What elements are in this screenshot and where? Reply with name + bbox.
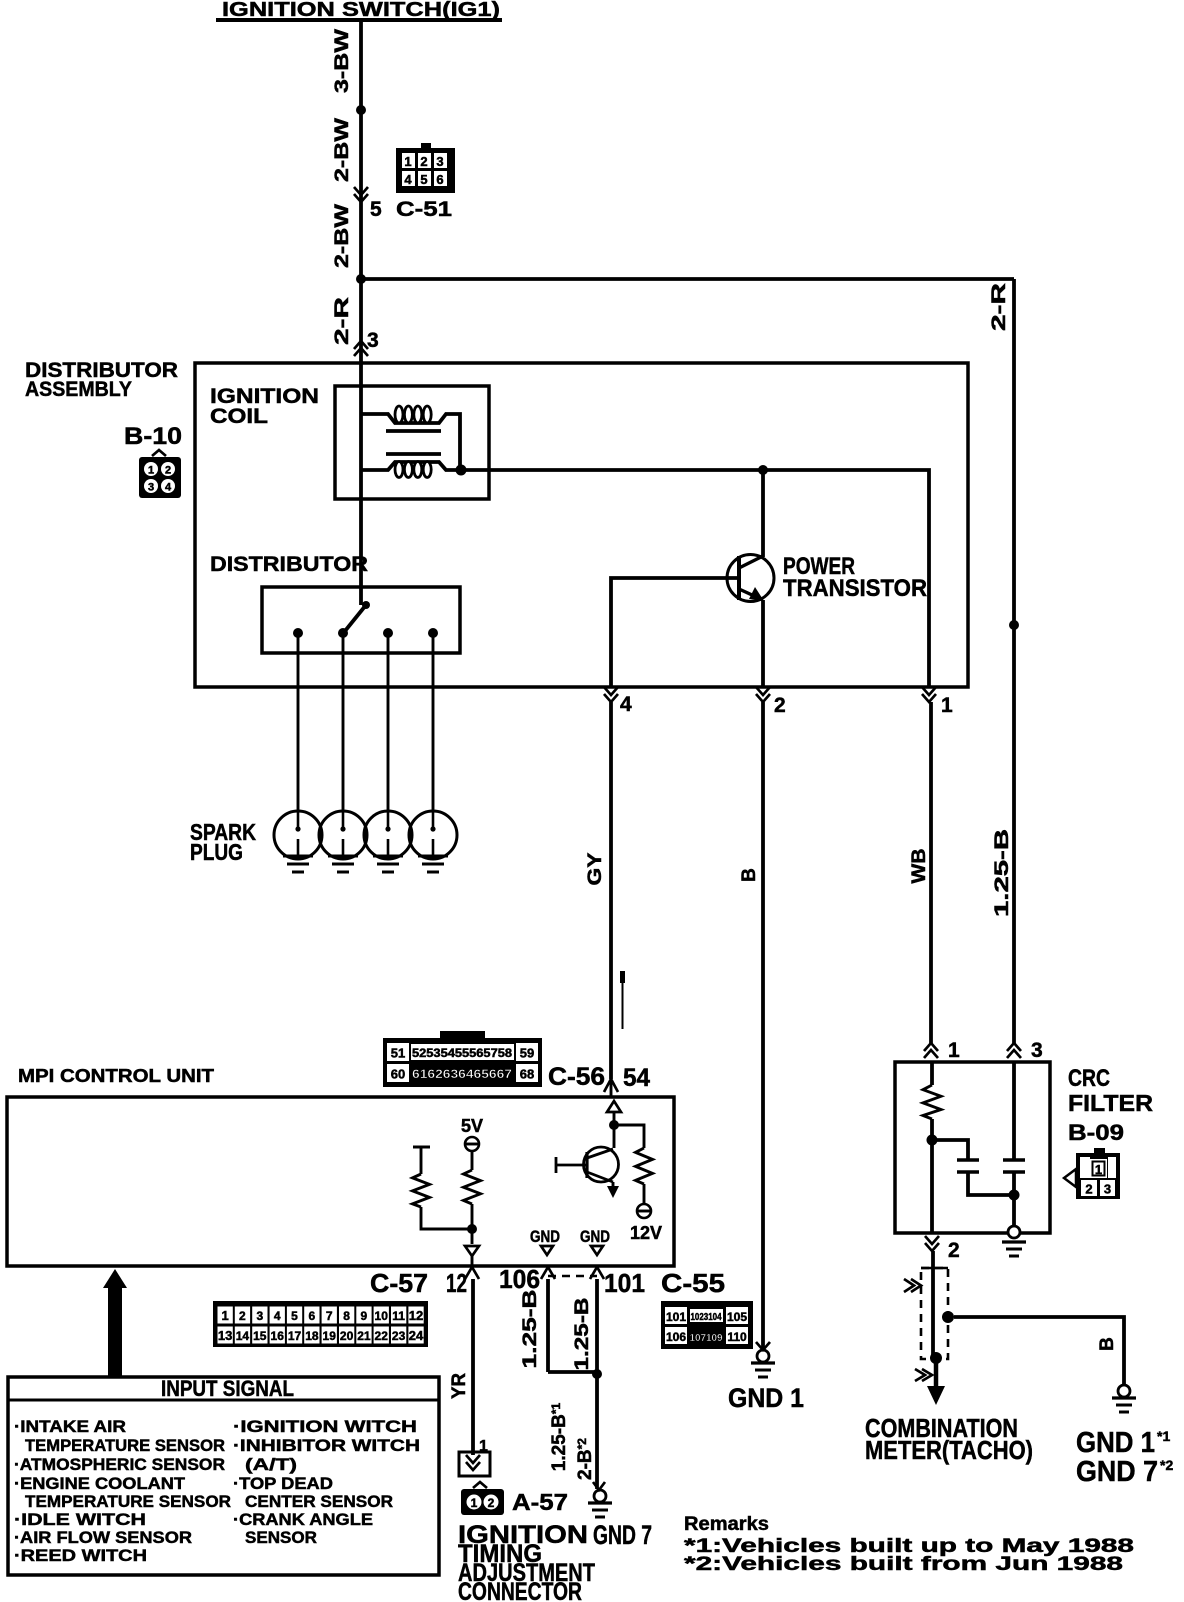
svg-text:GND 7: GND 7 xyxy=(1076,1456,1158,1488)
wire label 1.25-B (pin 101) xyxy=(572,1298,593,1371)
svg-text:*2:Vehicles built from Jun 198: *2:Vehicles built from Jun 1988 xyxy=(684,1554,1123,1575)
svg-text:METER(TACHO): METER(TACHO) xyxy=(865,1435,1033,1465)
junction node to 2-R branch xyxy=(356,274,366,284)
svg-text:3: 3 xyxy=(148,482,154,494)
node IGNITION SWITCH (IG1) title xyxy=(216,0,502,22)
connector icon C-55 xyxy=(661,1301,753,1349)
svg-text:6162636465667: 6162636465667 xyxy=(412,1067,512,1081)
chevron marker below dashed box xyxy=(915,1369,932,1381)
svg-text:GND 7: GND 7 xyxy=(593,1520,652,1550)
svg-text:COIL: COIL xyxy=(210,405,268,428)
wire transistor emitter down xyxy=(761,600,765,687)
svg-text:C-55: C-55 xyxy=(661,1268,725,1298)
input signal box xyxy=(8,1377,439,1575)
svg-text:SENSOR: SENSOR xyxy=(245,1528,317,1547)
junction node 106/101 xyxy=(592,1369,602,1379)
svg-text:12: 12 xyxy=(446,1268,467,1298)
wire C1 to ground node xyxy=(968,1172,1016,1195)
CRC filter box xyxy=(895,1062,1050,1233)
distributor contact 2 xyxy=(338,628,348,638)
connector arrow pin 2 (B) xyxy=(756,687,786,717)
wire pin 101 down xyxy=(595,1279,599,1489)
svg-text:MPI CONTROL UNIT: MPI CONTROL UNIT xyxy=(18,1066,214,1086)
wire GY down to MPI pin 54 xyxy=(609,702,613,1079)
svg-text:10: 10 xyxy=(375,1309,389,1323)
svg-text:17: 17 xyxy=(288,1329,302,1343)
resistor R3 in MPI xyxy=(636,1148,653,1184)
junction node tacho branch xyxy=(942,1311,954,1323)
svg-text:*1: *1 xyxy=(1157,1428,1170,1444)
wire label 3-BW xyxy=(332,29,353,93)
wire transistor collector xyxy=(761,470,765,557)
svg-text:3: 3 xyxy=(1104,1182,1111,1197)
wire through coil (center electrode feed) xyxy=(359,414,363,605)
wire label 2-R right xyxy=(989,283,1010,331)
wire label 2-BW upper xyxy=(332,118,353,182)
svg-text:1: 1 xyxy=(941,694,953,717)
wire coil output to power transistor collector feed xyxy=(461,470,929,687)
connector arrow pin 3 into distributor assembly xyxy=(354,329,379,356)
svg-text:1.25-B: 1.25-B xyxy=(572,1298,593,1371)
svg-text:1.25-B: 1.25-B xyxy=(520,1290,541,1369)
svg-text:2: 2 xyxy=(774,694,786,717)
wire contact4 to spark plug 4 xyxy=(432,633,435,812)
svg-text:4: 4 xyxy=(274,1309,281,1323)
ground GND 1 (B wire) xyxy=(751,1342,775,1377)
ground GND 1/7 (bottom right) xyxy=(1112,1385,1136,1412)
ignition coil primary winding xyxy=(361,414,460,470)
svg-text:106: 106 xyxy=(666,1330,686,1344)
svg-text:5: 5 xyxy=(420,172,427,187)
wire CRC pin1 internal xyxy=(930,1062,934,1085)
svg-text:13: 13 xyxy=(218,1328,232,1343)
svg-text:GY: GY xyxy=(585,852,606,885)
wire C2 to ground node xyxy=(1012,1172,1016,1226)
svg-text:·AIR FLOW SENSOR: ·AIR FLOW SENSOR xyxy=(14,1528,192,1547)
wire label WB xyxy=(909,849,930,884)
wire ignition switch to coil (vertical main) xyxy=(359,22,363,414)
svg-text:GND 1: GND 1 xyxy=(1076,1427,1155,1459)
scan artifact stub near GY wire xyxy=(620,971,625,983)
svg-text:2-R: 2-R xyxy=(989,283,1010,331)
svg-text:12: 12 xyxy=(409,1308,423,1323)
svg-text:6: 6 xyxy=(436,172,443,187)
svg-text:2: 2 xyxy=(165,465,171,477)
svg-text:GND: GND xyxy=(530,1227,560,1246)
svg-text:5: 5 xyxy=(291,1309,298,1323)
svg-text:3: 3 xyxy=(1031,1039,1043,1062)
svg-text:20: 20 xyxy=(340,1329,354,1343)
svg-text:2: 2 xyxy=(948,1239,960,1262)
svg-text:16: 16 xyxy=(271,1329,285,1343)
wire resistor to junction xyxy=(930,1119,934,1233)
svg-text:110: 110 xyxy=(727,1330,747,1344)
svg-text:6: 6 xyxy=(309,1309,316,1323)
svg-text:2: 2 xyxy=(1085,1182,1092,1197)
svg-text:FILTER: FILTER xyxy=(1068,1090,1153,1116)
svg-text:·IGNITION WITCH: ·IGNITION WITCH xyxy=(233,1417,417,1436)
arrow input signal to MPI xyxy=(103,1269,127,1378)
svg-text:INPUT SIGNAL: INPUT SIGNAL xyxy=(161,1376,294,1401)
svg-text:TEMPERATURE SENSOR: TEMPERATURE SENSOR xyxy=(25,1436,225,1455)
svg-text:1: 1 xyxy=(404,154,411,169)
svg-text:1: 1 xyxy=(948,1039,960,1062)
svg-text:·INTAKE AIR: ·INTAKE AIR xyxy=(14,1417,126,1436)
wire pin 106 down xyxy=(546,1279,550,1372)
svg-text:GND: GND xyxy=(580,1227,610,1246)
connector icon C-51 xyxy=(396,143,455,193)
wire CRC pin2 down to combination meter xyxy=(931,1251,935,1358)
svg-text:14: 14 xyxy=(236,1329,250,1343)
pin 12 marker and label C-57 12 xyxy=(370,1267,479,1298)
junction node coil output xyxy=(456,465,467,476)
open arrow up to pin 54 inside MPI xyxy=(607,1101,621,1112)
connector icon B-09 xyxy=(1064,1148,1120,1199)
junction dot on 2-R vertical xyxy=(1009,620,1019,630)
ignition timing adjustment connector terminal box xyxy=(459,1438,490,1476)
wire B down to GND 1 xyxy=(761,702,765,1349)
svg-text:51: 51 xyxy=(391,1046,405,1061)
wire 2-R right vertical down to CRC filter xyxy=(1012,279,1016,1044)
svg-text:2-BW: 2-BW xyxy=(332,204,353,268)
label GND pin101 xyxy=(580,1227,610,1255)
input list left column xyxy=(14,1417,231,1565)
input list right column xyxy=(233,1417,420,1547)
svg-text:B: B xyxy=(1097,1337,1118,1351)
svg-text:3: 3 xyxy=(367,329,379,352)
wire label 1.25-B *1 xyxy=(549,1402,570,1471)
wire transistor emitter with arrow xyxy=(607,1182,619,1198)
wire YR pin12 down to timing connector xyxy=(471,1279,475,1455)
svg-text:TRANSISTOR: TRANSISTOR xyxy=(783,575,927,602)
svg-text:1.25-B: 1.25-B xyxy=(992,829,1013,917)
junction dot on main wire xyxy=(356,105,366,115)
svg-text:C-51: C-51 xyxy=(396,198,452,221)
svg-text:2-R: 2-R xyxy=(332,297,353,345)
svg-text:5V: 5V xyxy=(461,1116,483,1136)
ignition coil box xyxy=(335,386,489,499)
svg-text:23: 23 xyxy=(392,1329,406,1343)
5V supply symbol xyxy=(461,1116,483,1151)
spark plug 3 xyxy=(364,811,412,872)
junction node R1/R2 to pin 12 xyxy=(467,1224,477,1234)
svg-text:68: 68 xyxy=(520,1067,534,1082)
svg-text:GND 1: GND 1 xyxy=(728,1383,804,1413)
svg-text:B-10: B-10 xyxy=(124,423,182,450)
wire WB down to CRC filter pin 1 xyxy=(929,702,933,1044)
svg-text:1: 1 xyxy=(148,465,154,477)
resistor R2 in MPI xyxy=(464,1151,481,1244)
svg-text:5: 5 xyxy=(370,198,382,221)
svg-text:24: 24 xyxy=(409,1328,424,1343)
svg-text:C-57: C-57 xyxy=(370,1268,428,1298)
dashed connector box (tacho) xyxy=(921,1268,948,1359)
svg-text:CONNECTOR: CONNECTOR xyxy=(458,1578,582,1602)
svg-text:2: 2 xyxy=(239,1309,246,1323)
12V supply symbol xyxy=(630,1204,662,1243)
wire transistor base lead from GY xyxy=(611,578,739,687)
junction dot collector node xyxy=(609,1120,619,1130)
svg-text:22: 22 xyxy=(375,1329,389,1343)
svg-text:1: 1 xyxy=(479,1438,488,1455)
svg-text:54: 54 xyxy=(623,1064,650,1092)
wire contact3 to spark plug 3 xyxy=(387,633,390,812)
wire label YR xyxy=(449,1373,470,1399)
dashed tie between pins 106 and 101 xyxy=(548,1275,597,1278)
arrow to combination meter xyxy=(927,1358,945,1405)
wire label B xyxy=(739,868,760,882)
svg-text:·INHIBITOR WITCH: ·INHIBITOR WITCH xyxy=(233,1436,420,1455)
svg-text:B: B xyxy=(739,868,760,882)
wire junction to capacitor C1 xyxy=(932,1140,968,1160)
wire 2-R horizontal branch to right xyxy=(361,277,1014,281)
svg-text:CENTER SENSOR: CENTER SENSOR xyxy=(245,1492,393,1511)
svg-text:60: 60 xyxy=(391,1067,405,1082)
svg-text:TEMPERATURE SENSOR: TEMPERATURE SENSOR xyxy=(25,1492,231,1511)
ground CRC filter xyxy=(1002,1226,1026,1256)
svg-text:WB: WB xyxy=(909,849,930,884)
connector icon C-57 xyxy=(213,1301,428,1347)
svg-text:3-BW: 3-BW xyxy=(332,29,353,93)
svg-text:9: 9 xyxy=(361,1309,368,1323)
spark plug 4 xyxy=(409,811,457,872)
svg-text:CRC: CRC xyxy=(1068,1065,1110,1092)
svg-text:·TOP DEAD: ·TOP DEAD xyxy=(233,1474,333,1493)
distributor box xyxy=(262,587,460,653)
ignition coil core xyxy=(386,429,441,433)
svg-text:·ENGINE COOLANT: ·ENGINE COOLANT xyxy=(14,1474,186,1493)
wire 106 joins 101 xyxy=(548,1370,597,1374)
svg-text:59: 59 xyxy=(520,1046,534,1061)
svg-text:105: 105 xyxy=(727,1310,747,1324)
svg-text:IGNITION SWITCH(IG1): IGNITION SWITCH(IG1) xyxy=(222,0,500,21)
chevron marker into dashed box xyxy=(904,1279,921,1292)
svg-text:3: 3 xyxy=(256,1309,263,1323)
connector icon C-56 xyxy=(383,1031,542,1087)
connector icon B-10 xyxy=(139,450,181,498)
connector arrow CRC pin 2 xyxy=(925,1236,960,1262)
power transistor U1 xyxy=(727,555,774,602)
svg-text:4: 4 xyxy=(620,693,632,716)
svg-text:2: 2 xyxy=(420,154,427,169)
svg-text:*2: *2 xyxy=(1160,1457,1173,1473)
svg-text:1: 1 xyxy=(471,1496,478,1510)
distributor contact 4 xyxy=(428,628,438,638)
svg-text:18: 18 xyxy=(305,1329,319,1343)
connector arrow pin 1 (WB) xyxy=(922,687,953,717)
wire label GY xyxy=(585,852,606,885)
open arrow to pin 12 xyxy=(465,1246,479,1256)
pin 54 V marker xyxy=(604,1079,618,1092)
svg-text:19: 19 xyxy=(323,1329,337,1343)
svg-text:101: 101 xyxy=(666,1310,686,1324)
svg-text:12V: 12V xyxy=(630,1223,662,1243)
svg-text:1: 1 xyxy=(1095,1162,1102,1177)
svg-text:1023104: 1023104 xyxy=(691,1312,722,1323)
svg-text:ASSEMBLY: ASSEMBLY xyxy=(25,378,132,401)
pin 106 marker and label xyxy=(499,1264,555,1294)
wire label 2-BW lower xyxy=(332,204,353,268)
svg-text:21: 21 xyxy=(357,1329,371,1343)
svg-text:101: 101 xyxy=(604,1268,645,1298)
capacitor C2 xyxy=(1003,1160,1025,1172)
spark plug 2 xyxy=(319,811,367,872)
svg-text:106: 106 xyxy=(499,1264,540,1294)
svg-text:·IDLE WITCH: ·IDLE WITCH xyxy=(14,1510,146,1529)
wire label B (bottom right) xyxy=(1097,1337,1118,1351)
svg-text:YR: YR xyxy=(449,1373,470,1399)
svg-text:DISTRIBUTOR: DISTRIBUTOR xyxy=(210,553,368,576)
svg-text:15: 15 xyxy=(253,1329,267,1343)
svg-text:C-56: C-56 xyxy=(548,1063,605,1091)
svg-text:·REED WITCH: ·REED WITCH xyxy=(14,1546,147,1565)
wire label 1.25-B right xyxy=(992,829,1013,917)
pin 101 marker and label xyxy=(590,1267,645,1298)
resistor R1 in MPI xyxy=(413,1147,473,1229)
svg-text:1: 1 xyxy=(221,1308,228,1323)
connector arrow CRC pin 3 xyxy=(1007,1039,1043,1062)
junction node capacitors xyxy=(1009,1190,1020,1201)
distributor contact 1 xyxy=(293,628,303,638)
transistor Q1 in MPI xyxy=(556,1147,619,1182)
svg-text:11: 11 xyxy=(392,1309,405,1323)
ignition coil secondary winding xyxy=(361,462,460,470)
svg-text:(A/T): (A/T) xyxy=(245,1455,297,1474)
wire collector to resistor R3 xyxy=(614,1125,644,1148)
wire tacho branch to right xyxy=(954,1317,1124,1384)
distributor assembly box xyxy=(195,363,968,687)
MPI control unit box xyxy=(7,1097,674,1266)
spark plug 1 xyxy=(274,811,322,872)
svg-text:PLUG: PLUG xyxy=(190,839,243,865)
resistor in CRC filter xyxy=(923,1085,941,1119)
svg-text:Remarks: Remarks xyxy=(684,1514,769,1535)
distributor rotor xyxy=(362,601,370,609)
svg-text:B-09: B-09 xyxy=(1068,1120,1124,1145)
svg-text:107109: 107109 xyxy=(690,1333,723,1344)
wire label 1.25-B (pin 106) xyxy=(520,1290,541,1369)
svg-text:·CRANK ANGLE: ·CRANK ANGLE xyxy=(233,1510,373,1529)
junction node at dashed box bottom xyxy=(930,1352,942,1364)
capacitor C1 xyxy=(957,1160,979,1172)
svg-text:·ATMOSPHERIC SENSOR: ·ATMOSPHERIC SENSOR xyxy=(14,1455,225,1474)
connector arrow pin 4 (GY) xyxy=(604,687,632,716)
svg-text:2: 2 xyxy=(488,1496,495,1510)
ground GND 7 xyxy=(588,1482,612,1517)
connector icon A-57 xyxy=(461,1482,504,1515)
svg-text:52535455565758: 52535455565758 xyxy=(412,1048,513,1060)
junction node resistor/capacitor xyxy=(927,1135,938,1146)
svg-text:4: 4 xyxy=(165,482,172,494)
connector arrow pin 5 C-51 xyxy=(354,187,452,221)
wire label 2-B *2 xyxy=(575,1438,596,1480)
svg-text:7: 7 xyxy=(326,1309,333,1323)
svg-text:3: 3 xyxy=(436,154,443,169)
wire label 2-R left xyxy=(332,297,353,345)
wire CRC pin3 internal xyxy=(1012,1062,1016,1160)
distributor contact 3 xyxy=(383,628,393,638)
svg-text:8: 8 xyxy=(343,1309,350,1323)
svg-text:2-BW: 2-BW xyxy=(332,118,353,182)
connector arrow CRC pin 1 xyxy=(924,1039,960,1062)
label GND pin106 xyxy=(530,1227,560,1255)
svg-text:A-57: A-57 xyxy=(512,1489,568,1515)
wire contact2 to spark plug 2 xyxy=(342,633,345,812)
junction dot collector tap xyxy=(758,465,768,475)
wire contact1 to spark plug 1 xyxy=(297,633,300,812)
svg-text:4: 4 xyxy=(404,172,412,187)
